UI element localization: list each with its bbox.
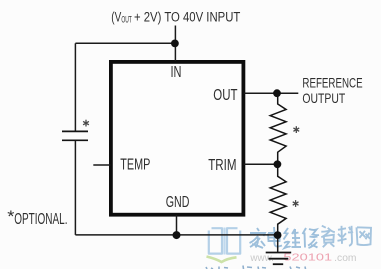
wire: GND pin vertical from box bottom to bus [176, 215, 178, 235]
wire: capacitor branch lower vertical [74, 141, 76, 235]
wire: bottom ground bus [75, 234, 277, 236]
watermark char 2 (dian) [268, 227, 282, 247]
svg-text:TRIM: TRIM [208, 157, 236, 174]
wire: OUT pin to reference output [244, 92, 299, 94]
wire: TRIM pin to divider tap [244, 163, 278, 165]
junction dot: input node [171, 40, 179, 48]
svg-text:IN: IN [171, 64, 182, 81]
resistor (lower, *) zigzag [270, 164, 286, 235]
junction dot: TRIM divider tap node [274, 160, 282, 168]
upper resistor asterisk label * [293, 126, 299, 133]
watermark char 7 (wang) [357, 227, 372, 245]
watermark char 4 (xiu) [303, 228, 320, 248]
junction dot: divider bottom on bus [274, 231, 282, 239]
node label: REFERENCE OUTPUT [302, 75, 362, 106]
svg-text:.com: .com [334, 253, 356, 264]
wire: TEMP pin stub [93, 164, 110, 166]
watermark char 5 (zi) [321, 226, 335, 248]
svg-text:OPTIONAL.: OPTIONAL. [14, 211, 67, 228]
ground symbol bars [266, 253, 292, 265]
wire: horizontal from IN node to capacitor branch [75, 42, 175, 44]
svg-text:OUTPUT: OUTPUT [302, 91, 345, 106]
node label: (VOUT + 2V) TO 40V INPUT [111, 9, 240, 24]
resistor (upper, *) zigzag [270, 93, 286, 164]
ground symbol stem [277, 235, 279, 252]
svg-text:520101: 520101 [283, 252, 332, 263]
IC regulator box [111, 62, 244, 215]
svg-text:OUT: OUT [121, 14, 132, 25]
svg-text:GND: GND [166, 194, 190, 211]
junction dot: GND pin on bus [173, 231, 181, 239]
wire: capacitor branch upper vertical [74, 43, 76, 131]
watermark char 1 (jia) [250, 228, 266, 248]
svg-text:TEMP: TEMP [120, 157, 150, 174]
svg-text:OUT: OUT [213, 87, 237, 104]
wire: IN pin vertical from input label to box top [174, 26, 176, 62]
watermark clipped second row [206, 266, 306, 269]
watermark green swoosh [207, 257, 237, 263]
junction dot: OUT / reference node [273, 89, 281, 97]
watermark book logo [209, 228, 240, 255]
svg-text:+ 2V) TO 40V INPUT: + 2V) TO 40V INPUT [134, 9, 240, 24]
watermark char 3 (wei) [284, 228, 302, 248]
lower resistor asterisk label * [293, 200, 299, 207]
capacitor asterisk label * [83, 120, 89, 127]
svg-text:REFERENCE: REFERENCE [302, 75, 362, 90]
svg-text:(V: (V [111, 9, 121, 24]
watermark char 6 (liao) [338, 226, 354, 246]
capacitor (optional, *) [62, 131, 88, 140]
